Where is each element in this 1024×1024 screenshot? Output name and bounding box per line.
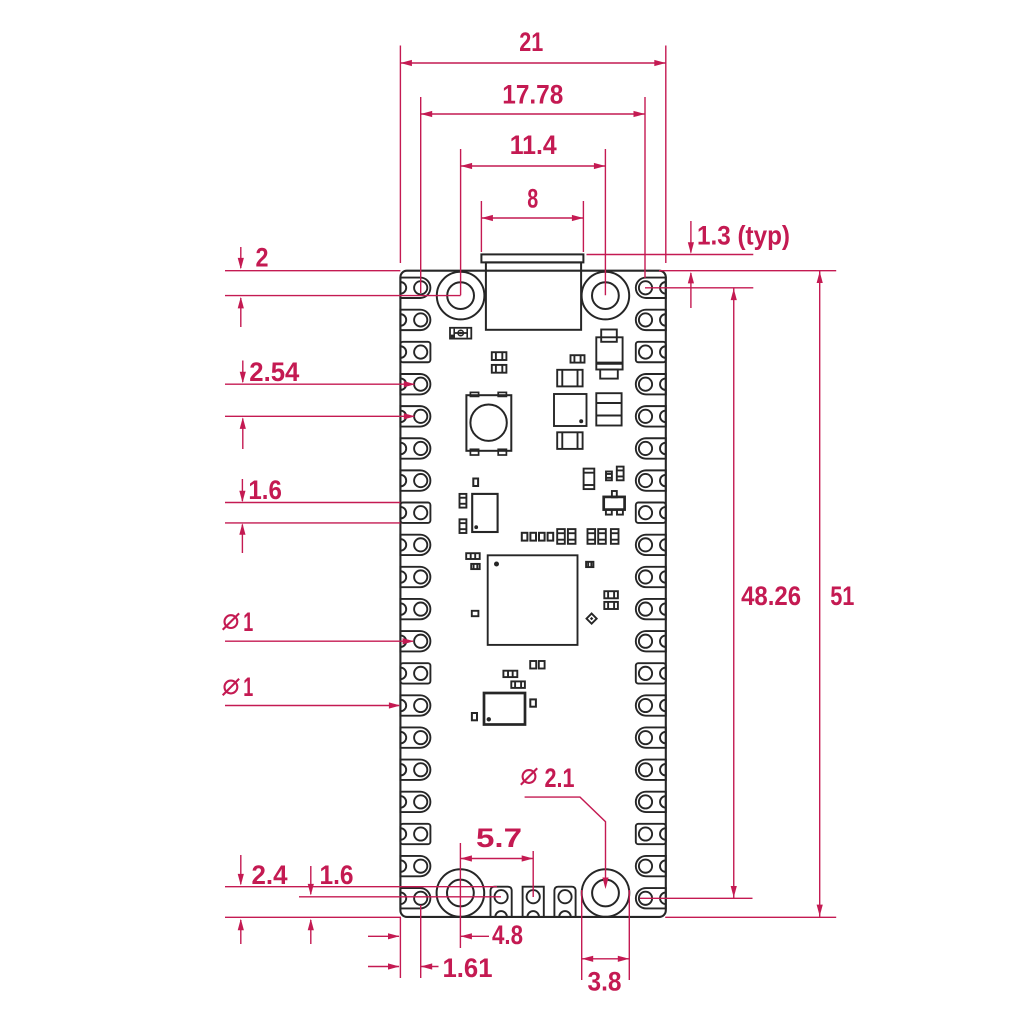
dimension 1.61 pin inset bbox=[368, 905, 493, 983]
dimension 17.78 pin row span bbox=[421, 80, 645, 294]
resistor R7 bbox=[466, 553, 480, 559]
svg-text:11.4: 11.4 bbox=[510, 130, 557, 160]
debug pads SWCLK GND SWDIO bbox=[491, 887, 576, 917]
svg-text:1: 1 bbox=[243, 607, 253, 637]
dimension 8 USB width bbox=[481, 184, 583, 253]
svg-text:51: 51 bbox=[830, 581, 854, 611]
capacitor C2 bbox=[596, 393, 621, 425]
resistor R2 bbox=[492, 365, 507, 373]
mounting hole bottom-right bbox=[582, 869, 630, 917]
dimension 2.4 debug pad height bbox=[225, 855, 497, 944]
dimension dia-1 castellation bbox=[223, 672, 401, 709]
svg-text:1.6: 1.6 bbox=[320, 860, 354, 890]
right edge pads pins 21-40 bbox=[636, 278, 666, 909]
resistor R11 bbox=[503, 671, 517, 677]
svg-text:1.3 (typ): 1.3 (typ) bbox=[697, 221, 790, 251]
svg-text:17.78: 17.78 bbox=[502, 80, 563, 110]
svg-text:2.4: 2.4 bbox=[252, 860, 288, 890]
resistor R10 bbox=[604, 602, 618, 609]
capacitor C6 bbox=[584, 469, 595, 490]
RP2040 microcontroller U1 bbox=[488, 555, 578, 645]
capacitor C12 bbox=[472, 611, 479, 616]
dimension 1.6 pad height bbox=[225, 475, 400, 553]
resistor R5 bbox=[606, 472, 612, 481]
svg-text:48.26: 48.26 bbox=[741, 581, 801, 611]
capacitor C17 bbox=[530, 699, 536, 706]
extension line board bottom edge bbox=[225, 916, 836, 918]
BOOTSEL button SW1 bbox=[466, 392, 511, 455]
dimension 21 board width bbox=[400, 27, 665, 263]
dimension 11.4 hole spacing bbox=[461, 130, 606, 295]
transistor Q1 bbox=[604, 491, 625, 515]
capacitor bank C7-C11 bbox=[522, 529, 619, 544]
svg-text:2.1: 2.1 bbox=[545, 763, 575, 793]
dimension 3.8 hole pad dia bbox=[582, 890, 630, 997]
USB connector J1 bbox=[481, 254, 583, 329]
resistor R3 bbox=[571, 355, 585, 362]
left edge pads pins 1-20 bbox=[400, 278, 430, 909]
capacitor C15 bbox=[539, 661, 545, 669]
resistor R8 bbox=[471, 564, 480, 569]
capacitor C4 bbox=[460, 494, 467, 508]
capacitor C1 bbox=[557, 370, 582, 387]
flash chip U3 bbox=[472, 494, 497, 532]
resistor R1 bbox=[492, 352, 507, 360]
dimension 2 hole offset bbox=[225, 243, 461, 328]
mounting hole top-right bbox=[582, 272, 630, 320]
dimension 5.7 hole to debug pin bbox=[460, 823, 533, 904]
svg-text:4.8: 4.8 bbox=[492, 920, 523, 950]
resistor R6 bbox=[617, 467, 624, 481]
dimension 4.8 hole to edge bbox=[368, 904, 523, 978]
dimension 1.6 bottom pin offset bbox=[299, 860, 501, 944]
svg-text:1.61: 1.61 bbox=[443, 953, 493, 983]
resistor R12 bbox=[511, 681, 525, 688]
svg-text:8: 8 bbox=[527, 184, 538, 214]
resistor R9 bbox=[604, 591, 618, 598]
PCB board outline bbox=[400, 271, 665, 917]
regulator U2 bbox=[554, 394, 587, 426]
diode D1 bbox=[587, 614, 597, 624]
capacitor C16 bbox=[472, 713, 477, 720]
mounting hole bottom-left bbox=[437, 869, 485, 917]
svg-text:1: 1 bbox=[243, 672, 253, 702]
svg-text:3.8: 3.8 bbox=[588, 967, 622, 997]
capacitor C5 bbox=[460, 519, 467, 533]
resistor R4 bbox=[473, 479, 478, 487]
svg-text:2.54: 2.54 bbox=[249, 357, 299, 387]
crystal Y1 bbox=[484, 693, 525, 725]
dimension 1.3 typ USB overhang bbox=[587, 221, 837, 309]
capacitor C14 bbox=[530, 661, 536, 669]
dimension 48.26 pin row length bbox=[640, 288, 801, 898]
dimension 51 board length bbox=[817, 271, 855, 917]
dimension dia-1 pin hole bbox=[223, 607, 414, 644]
dimension 2.54 pin pitch bbox=[225, 357, 415, 449]
fiducial label FID1 bbox=[450, 328, 471, 339]
dimension dia-2.1 mounting hole bbox=[521, 763, 609, 889]
svg-text:1.6: 1.6 bbox=[248, 475, 282, 505]
mounting hole top-left bbox=[437, 272, 485, 320]
svg-text:2: 2 bbox=[256, 243, 269, 273]
svg-text:5.7: 5.7 bbox=[476, 823, 522, 853]
capacitor C13 bbox=[586, 562, 593, 567]
capacitor C3 bbox=[557, 432, 582, 449]
inductor L1 bbox=[596, 330, 622, 379]
svg-text:21: 21 bbox=[519, 27, 543, 57]
